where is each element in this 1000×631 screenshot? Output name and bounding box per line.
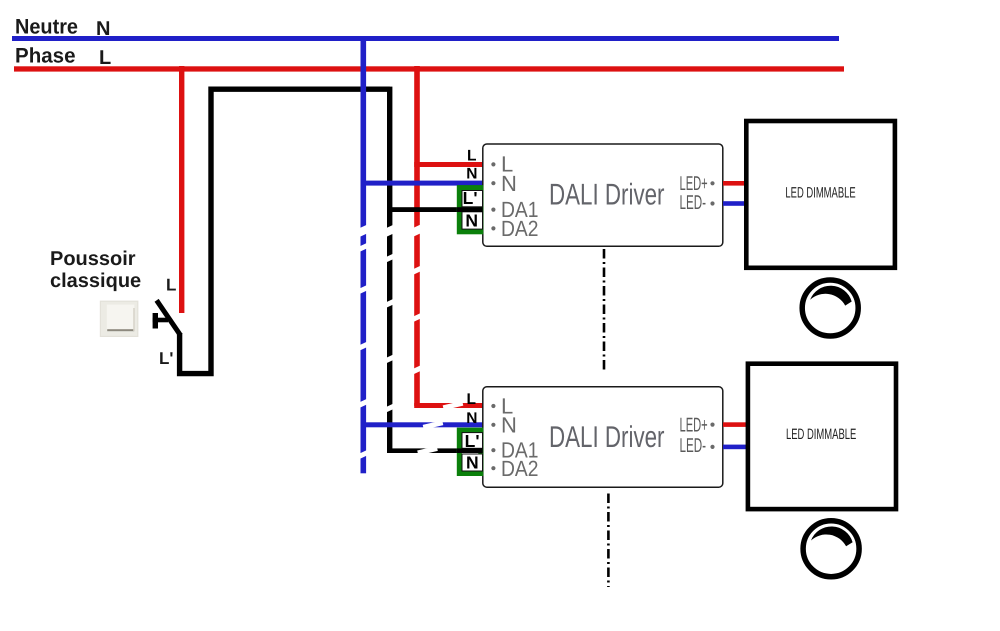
svg-text:DALI Driver: DALI Driver: [549, 421, 665, 454]
svg-text:L: L: [467, 147, 476, 164]
svg-text:LED-: LED-: [680, 192, 707, 214]
svg-text:N: N: [501, 171, 517, 196]
svg-text:LED-: LED-: [680, 435, 707, 457]
svg-text:N: N: [96, 18, 110, 40]
svg-text:LED DIMMABLE: LED DIMMABLE: [785, 185, 855, 202]
svg-text:L: L: [166, 276, 176, 295]
svg-text:DA2: DA2: [501, 216, 539, 241]
svg-text:classique: classique: [50, 270, 141, 292]
svg-text:Phase: Phase: [15, 45, 76, 68]
svg-text:N: N: [466, 166, 477, 183]
svg-text:LED DIMMABLE: LED DIMMABLE: [786, 426, 856, 443]
svg-text:Poussoir: Poussoir: [50, 248, 136, 270]
svg-text:DA2: DA2: [501, 456, 539, 481]
svg-text:Neutre: Neutre: [15, 16, 78, 39]
svg-text:L': L': [463, 188, 478, 208]
svg-text:LED+: LED+: [680, 414, 708, 436]
svg-text:L': L': [159, 349, 173, 368]
svg-text:L: L: [467, 391, 476, 408]
svg-text:N: N: [466, 453, 479, 473]
svg-text:N: N: [465, 210, 478, 230]
svg-text:DALI Driver: DALI Driver: [549, 178, 665, 211]
svg-text:L: L: [99, 47, 111, 69]
svg-text:L': L': [465, 431, 480, 451]
svg-text:N: N: [501, 413, 517, 438]
svg-text:N: N: [466, 410, 477, 427]
